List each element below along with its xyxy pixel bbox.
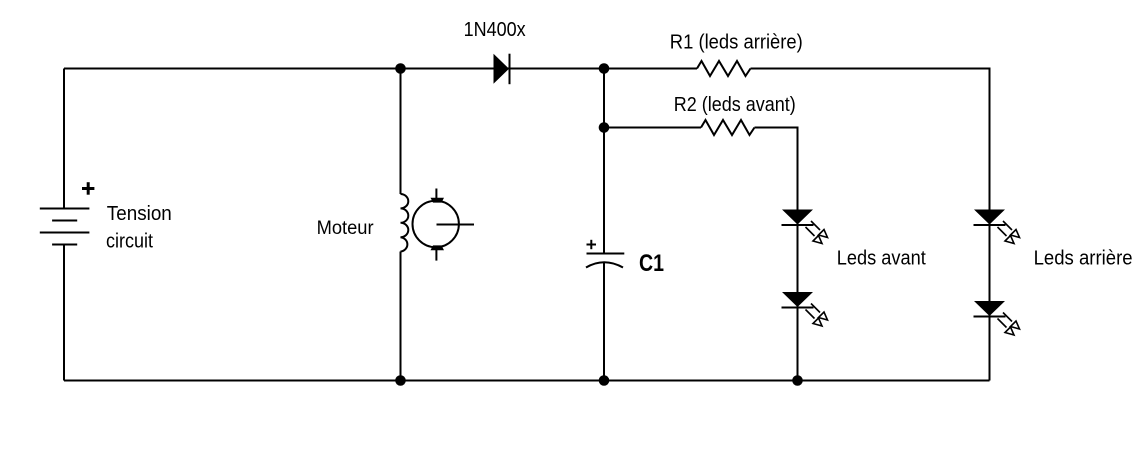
diode D1 triangle — [494, 54, 510, 84]
resistor R1 — [697, 61, 751, 76]
wire: R2 to front-led branch corner — [755, 128, 798, 381]
wire: capacitor branch lower — [603, 262, 605, 381]
node: bottom motor junction — [395, 375, 406, 386]
motor top stub — [435, 189, 437, 200]
wire: left branch lower (battery - to bottom rail) — [63, 245, 65, 381]
battery B1 plates — [40, 209, 90, 245]
svg-text:1N400x: 1N400x — [464, 19, 526, 41]
svg-text:C1: C1 — [639, 250, 664, 277]
label: Tension circuit — [106, 203, 172, 253]
led D2 (front top) — [782, 210, 828, 244]
svg-text:R2 (leds avant): R2 (leds avant) — [674, 94, 796, 116]
wire: R2 branch from node to resistor — [604, 127, 701, 129]
battery plus sign — [82, 182, 94, 195]
led D4 (rear top) — [974, 210, 1020, 244]
motor top brush — [431, 198, 445, 203]
capacitor C1 bottom plate (curved) — [586, 262, 623, 267]
motor bottom stub — [435, 249, 437, 261]
resistor R2 — [701, 120, 755, 135]
motor M body circle — [413, 201, 459, 247]
wire: motor branch upper — [400, 69, 402, 195]
node: top motor junction — [395, 63, 406, 74]
motor bottom brush — [431, 245, 445, 250]
node: bottom capacitor junction — [599, 375, 610, 386]
motor shaft — [437, 224, 475, 226]
svg-text:Tension: Tension — [107, 203, 172, 225]
diode D1 cathode bar — [509, 54, 511, 84]
svg-text:R1 (leds arrière): R1 (leds arrière) — [670, 31, 803, 53]
wire: bottom rail — [64, 380, 990, 382]
wire: left branch upper (to battery +) — [63, 69, 65, 209]
wire: top rail from left corner to R1 — [64, 68, 697, 70]
led D5 (rear bottom) — [974, 301, 1020, 335]
node: bottom front-led junction — [792, 375, 803, 386]
led D3 (front bottom) — [782, 292, 828, 326]
svg-text:Leds arrière: Leds arrière — [1034, 248, 1133, 270]
wire: motor branch lower — [400, 252, 402, 381]
capacitor C1 top plate — [587, 253, 625, 255]
motor M coil — [401, 194, 409, 252]
node: R2 branch junction — [599, 122, 610, 133]
node: top capacitor junction — [599, 63, 610, 74]
svg-text:Moteur: Moteur — [317, 218, 375, 239]
wire: top rail from R1 to right corner, down right branch — [751, 69, 990, 381]
svg-text:circuit: circuit — [106, 231, 153, 253]
svg-text:Leds avant: Leds avant — [837, 248, 926, 270]
wire: capacitor branch upper — [603, 69, 605, 254]
capacitor C1 plus sign — [587, 240, 597, 249]
